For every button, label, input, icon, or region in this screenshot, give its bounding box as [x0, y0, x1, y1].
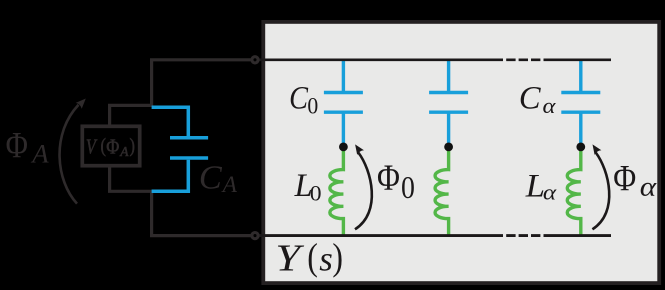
admittance box outline: [263, 22, 659, 283]
node 0 junction dot: [339, 143, 348, 152]
label Lalpha: [525, 168, 557, 205]
svg-text:0: 0: [307, 93, 318, 119]
source box V(PhiA): [82, 126, 139, 165]
svg-text:s: s: [319, 239, 333, 278]
svg-text:A: A: [30, 139, 49, 169]
capacitor CA bottom lead: [152, 160, 189, 192]
source label V(PhiA): [86, 134, 135, 159]
wire loop left: top terminal to source: [110, 60, 251, 127]
svg-text:0: 0: [401, 172, 415, 206]
inductor branch 1 (green): [435, 147, 449, 235]
node alpha junction dot: [576, 143, 585, 152]
inductor L0 (green): [330, 147, 344, 235]
svg-text:α: α: [543, 94, 557, 118]
svg-text:Φ: Φ: [613, 158, 636, 199]
wire loop left: source to bottom terminal: [110, 166, 251, 236]
inductor Lalpha (green): [567, 147, 581, 235]
capacitor CA plates: [170, 138, 208, 158]
label L0: [294, 167, 322, 205]
label Phialpha: [613, 158, 657, 202]
svg-text:C: C: [289, 80, 308, 116]
top bus wire: [257, 58, 611, 61]
svg-text:A: A: [119, 144, 129, 159]
label Phi0: [377, 158, 415, 206]
arrow PhiA: [60, 105, 79, 204]
svg-text:A: A: [221, 172, 238, 198]
svg-text:Y: Y: [275, 237, 304, 279]
terminal bottom: [252, 233, 258, 239]
svg-text:(: (: [101, 134, 106, 157]
label C0: [289, 80, 318, 119]
label CA: [199, 159, 238, 198]
arrow Phi0: [355, 153, 372, 230]
terminal top: [252, 57, 258, 63]
arrow Phialpha: [592, 153, 609, 230]
label Y(s): [275, 236, 343, 280]
svg-text:Φ: Φ: [6, 126, 28, 166]
svg-text:(: (: [307, 236, 318, 278]
svg-text:C: C: [519, 80, 541, 116]
svg-text:Φ: Φ: [106, 135, 119, 159]
bottom bus wire: [257, 234, 611, 237]
node 1 junction dot: [444, 143, 453, 152]
capacitor Calpha branch (blue): [561, 60, 600, 147]
svg-text:): ): [332, 236, 343, 278]
svg-text:): ): [130, 134, 135, 157]
svg-text:α: α: [640, 172, 657, 202]
capacitor CA top lead: [152, 107, 189, 136]
capacitor branch 1 (blue): [429, 60, 468, 147]
svg-text:0: 0: [310, 180, 322, 205]
capacitor C0 branch (blue): [324, 60, 363, 147]
label Calpha: [519, 80, 556, 118]
label PhiA: [6, 126, 50, 169]
svg-text:Φ: Φ: [377, 158, 400, 199]
svg-text:α: α: [543, 181, 557, 205]
svg-text:C: C: [199, 159, 223, 197]
